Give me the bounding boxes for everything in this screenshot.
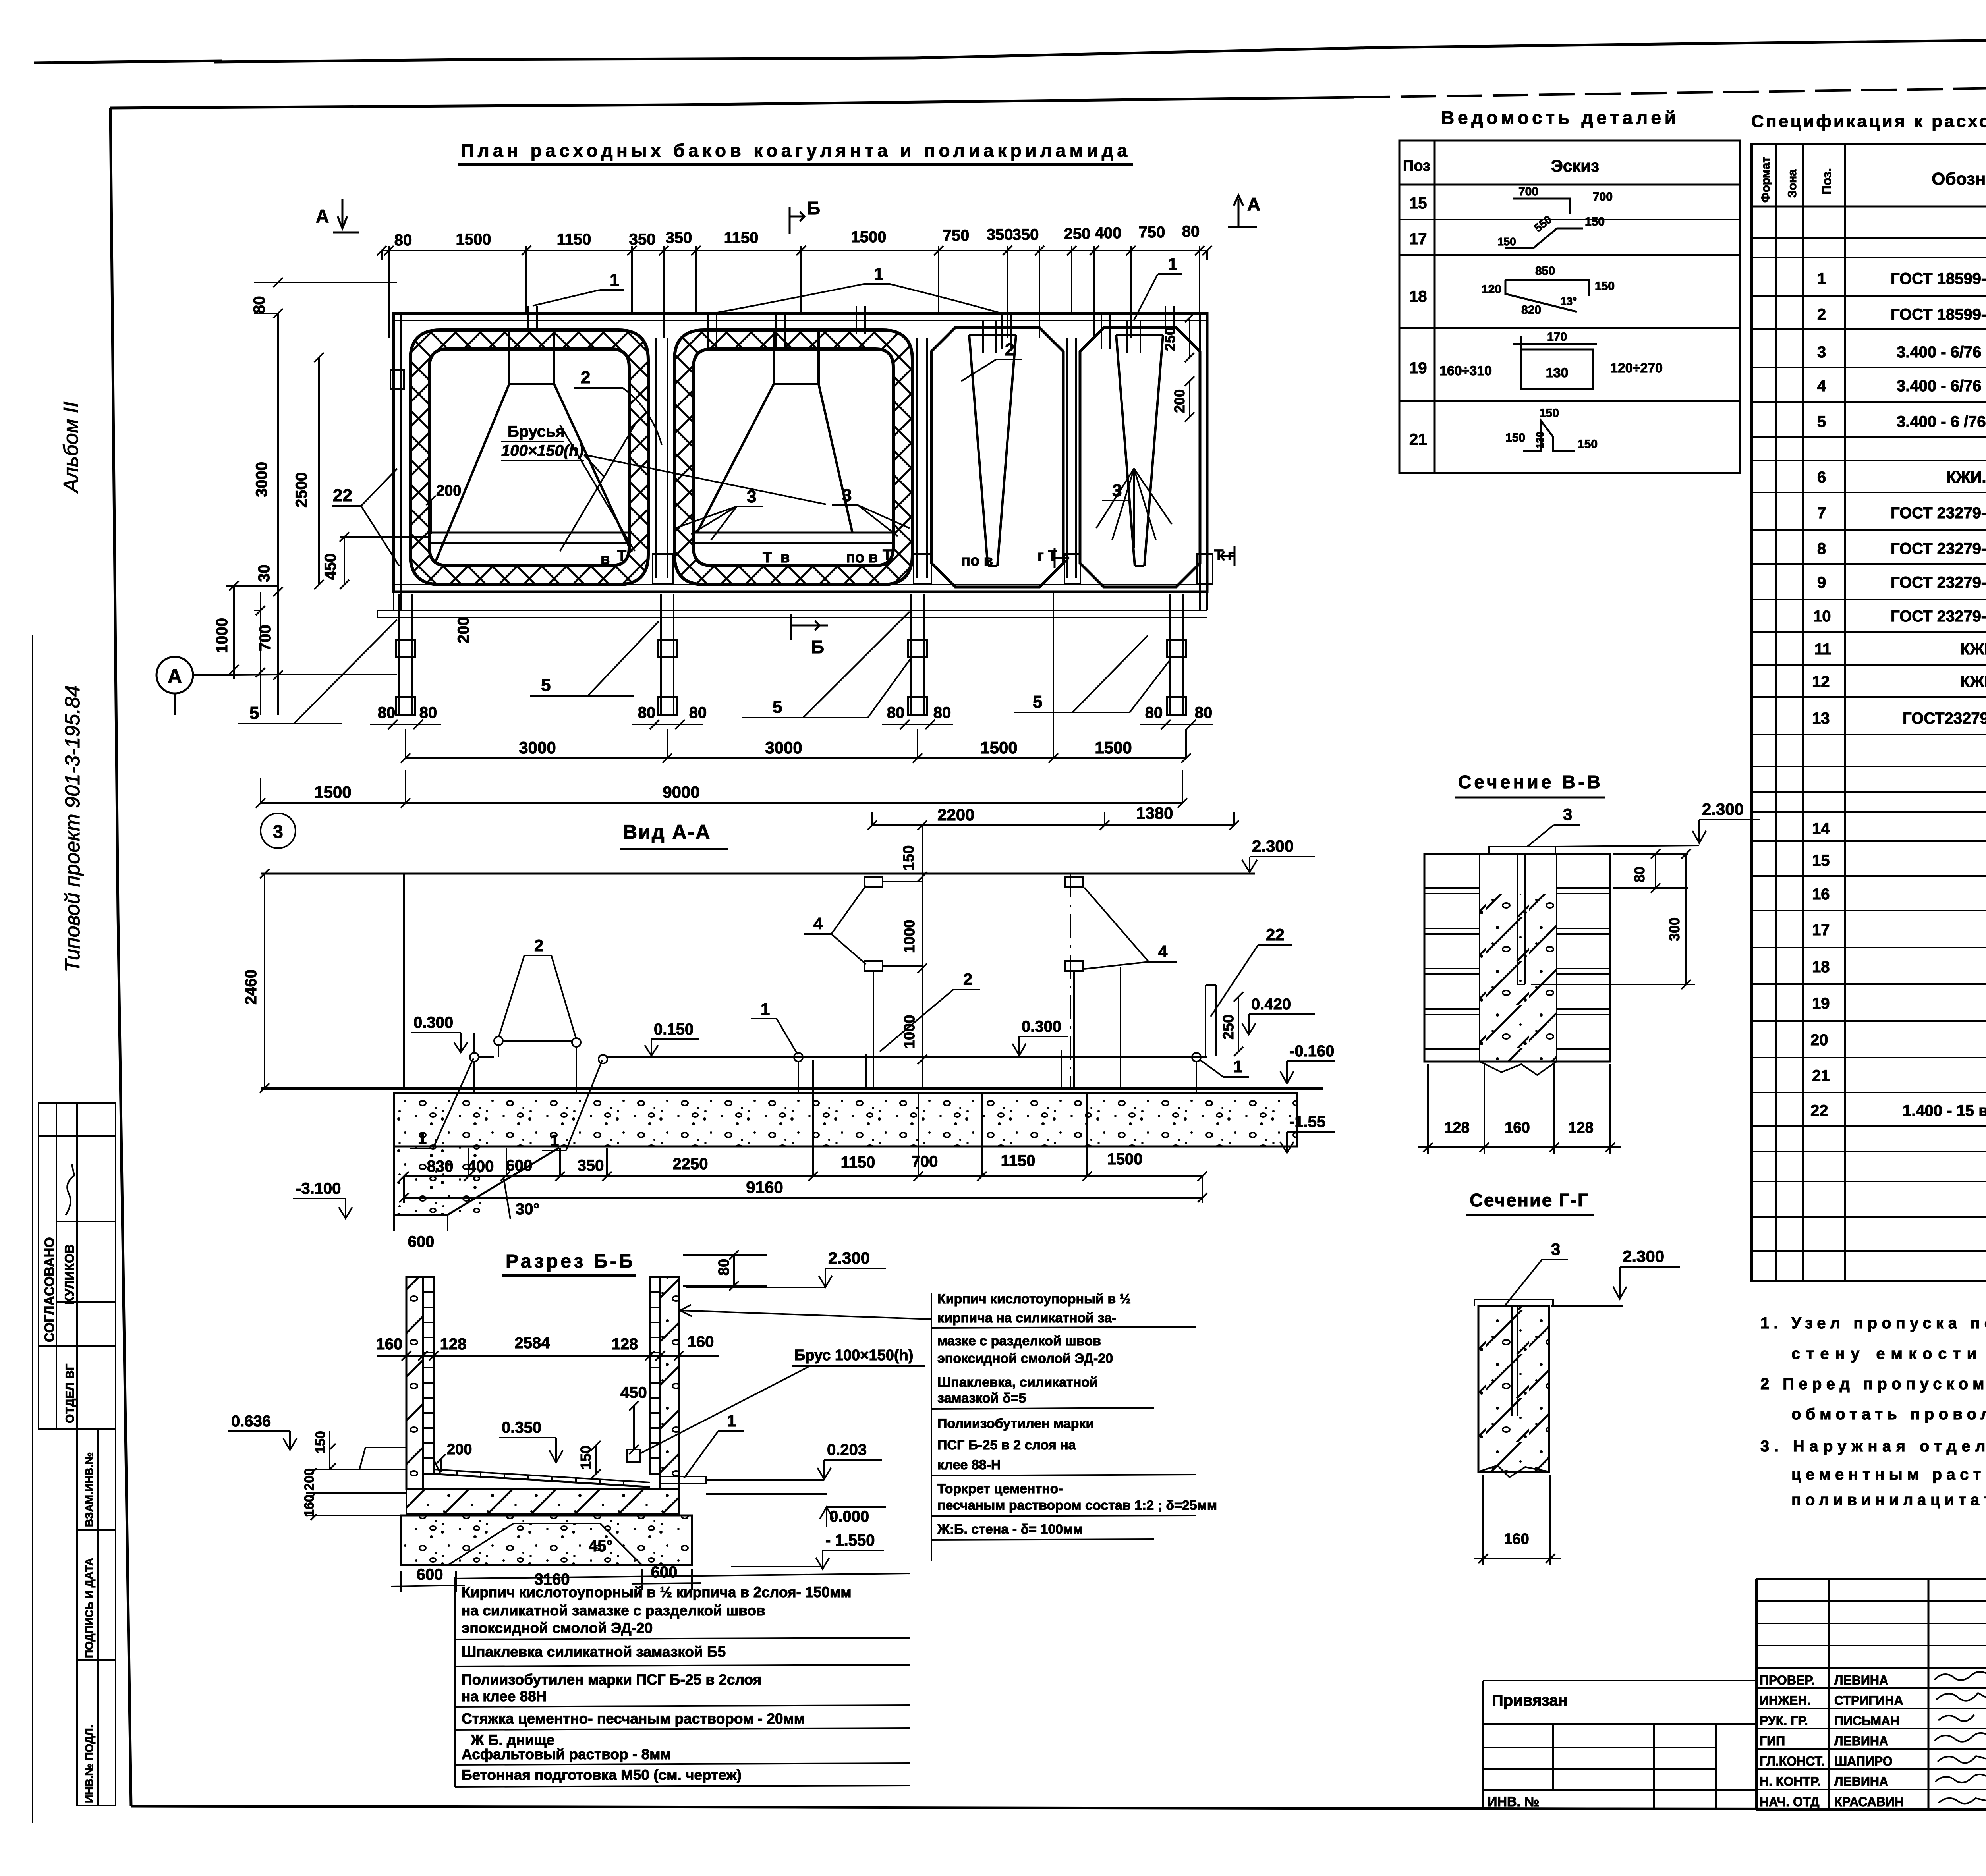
svg-text:750: 750 xyxy=(1139,224,1165,241)
svg-text:Стяжка цементно- песчаным рас: Стяжка цементно- песчаным раствором - 20… xyxy=(462,1710,805,1727)
brusya label xyxy=(501,423,826,504)
plate 22 on right wall xyxy=(1206,985,1216,1056)
svg-text:в: в xyxy=(780,549,790,566)
svg-text:16: 16 xyxy=(1812,886,1830,903)
svg-text:ИНВ.№ ПОДЛ.: ИНВ.№ ПОДЛ. xyxy=(83,1725,95,1803)
svg-text:18: 18 xyxy=(1409,288,1427,305)
svg-text:80: 80 xyxy=(887,704,905,722)
circled A row marker xyxy=(156,657,278,693)
tank 1 bottom ledge lines xyxy=(429,533,629,543)
left rotated dims xyxy=(213,296,472,654)
foundation slab speckled xyxy=(394,1093,1297,1215)
column body xyxy=(1478,1306,1549,1472)
svg-text:обмотать проволокой ф 3: обмотать проволокой ф 3 мм. xyxy=(1791,1405,1986,1423)
svg-text:по в: по в xyxy=(961,552,993,569)
tank 3 funnel xyxy=(969,335,1016,566)
svg-text:600: 600 xyxy=(408,1233,435,1251)
svg-text:22: 22 xyxy=(1266,925,1285,944)
svg-text:3000: 3000 xyxy=(765,738,802,757)
svg-text:18: 18 xyxy=(1812,958,1830,976)
label 5 leaders xyxy=(238,612,1171,724)
svg-text:9: 9 xyxy=(1817,574,1826,591)
svg-text:Т: Т xyxy=(763,549,772,566)
column cap xyxy=(1474,1299,1553,1306)
label 1 right xyxy=(1134,255,1182,320)
svg-text:ШАПИРО: ШАПИРО xyxy=(1834,1754,1893,1768)
svg-text:ПОДПИСЬ И ДАТА: ПОДПИСЬ И ДАТА xyxy=(83,1558,95,1658)
svg-text:8: 8 xyxy=(1817,540,1826,558)
dash-dot column axis xyxy=(1070,874,1071,1088)
svg-text:1: 1 xyxy=(610,270,619,290)
svg-text:11: 11 xyxy=(1814,641,1831,658)
svg-text:1380: 1380 xyxy=(1136,804,1173,822)
svg-text:Вид А-А: Вид А-А xyxy=(623,821,711,843)
svg-text:128: 128 xyxy=(1444,1119,1469,1136)
svg-text:160÷310: 160÷310 xyxy=(1439,363,1492,378)
svg-text:600: 600 xyxy=(651,1563,678,1581)
label 3 T2 right xyxy=(832,486,910,536)
svg-text:13°: 13° xyxy=(1560,295,1577,307)
svg-text:5: 5 xyxy=(1817,413,1826,430)
svg-text:2: 2 xyxy=(581,368,590,387)
approval box xyxy=(39,1103,116,1429)
svg-text:30: 30 xyxy=(255,565,273,583)
foundation dim numbers xyxy=(427,1150,1143,1175)
svg-text:Б: Б xyxy=(807,198,820,218)
concrete core xyxy=(1480,894,1557,1062)
svg-text:2: 2 xyxy=(534,936,543,955)
label 22 xyxy=(332,469,399,566)
signatures xyxy=(1934,1672,1986,1803)
svg-text:1: 1 xyxy=(761,1000,770,1018)
stamp small grid rows top-left xyxy=(1756,1601,1986,1668)
svg-text:на силикатной замазке с разде: на силикатной замазке с разделкой швов xyxy=(462,1602,765,1619)
svg-text:3: 3 xyxy=(842,486,852,505)
svg-text:750: 750 xyxy=(943,227,970,244)
svg-text:6: 6 xyxy=(1817,469,1826,486)
svg-text:стену емкости см. лист: стену емкости см. лист КЖ10. xyxy=(1791,1345,1986,1363)
svg-text:4: 4 xyxy=(813,914,823,933)
svg-text:1: 1 xyxy=(874,264,883,284)
svg-text:ГОСТ 18599- 73*: ГОСТ 18599- 73* xyxy=(1891,270,1986,288)
spec header row xyxy=(1752,206,1986,208)
top slab edge line xyxy=(607,1056,1207,1058)
tank 2 funnel xyxy=(697,332,852,533)
svg-text:1500: 1500 xyxy=(851,228,887,246)
svg-text:550: 550 xyxy=(1532,213,1554,234)
signature squiggle xyxy=(66,1164,74,1215)
wall body xyxy=(1424,854,1610,1062)
svg-text:Торкрет цементно-: Торкрет цементно- xyxy=(937,1481,1063,1496)
svg-text:0.350: 0.350 xyxy=(502,1419,541,1436)
svg-text:3000: 3000 xyxy=(519,738,556,757)
svg-text:850: 850 xyxy=(1535,264,1555,278)
svg-text:Зона: Зона xyxy=(1786,169,1799,198)
svg-text:мазке с разделкой швов: мазке с разделкой швов xyxy=(937,1334,1101,1349)
dim line 2200/1380 xyxy=(872,824,1234,826)
svg-text:1150: 1150 xyxy=(841,1154,875,1171)
svg-text:1500: 1500 xyxy=(456,231,491,248)
svg-text:4: 4 xyxy=(1158,942,1168,961)
svg-text:5: 5 xyxy=(773,697,782,717)
svg-text:160: 160 xyxy=(376,1336,403,1353)
foundation dim line xyxy=(404,1175,1202,1177)
svg-text:СОГЛАСОВАНО: СОГЛАСОВАНО xyxy=(42,1237,57,1342)
svg-text:450: 450 xyxy=(620,1384,647,1401)
bottom dim line 1 xyxy=(406,757,1186,759)
SECTION: notes xyxy=(1760,1314,1986,1509)
600 bottom box xyxy=(394,1215,448,1231)
svg-text:120÷270: 120÷270 xyxy=(1610,361,1663,376)
posts below deck xyxy=(396,594,1186,715)
spec rows 14-22 xyxy=(1810,818,1986,1119)
right wall brick liner xyxy=(650,1277,660,1474)
top dim labels xyxy=(394,223,1200,249)
svg-text:Альбом II: Альбом II xyxy=(60,401,83,494)
svg-text:Шпаклевка силикатной замазко: Шпаклевка силикатной замазкой Б5 xyxy=(462,1644,726,1660)
section B bottom mark xyxy=(791,614,828,657)
SECTION: SPECIFICATION TABLE xyxy=(1751,112,1986,1281)
svg-text:1: 1 xyxy=(550,1132,559,1149)
svg-text:0.300: 0.300 xyxy=(413,1014,453,1031)
svg-text:Ж:Б. стена - δ= 100мм: Ж:Б. стена - δ= 100мм xyxy=(937,1522,1083,1537)
svg-text:350: 350 xyxy=(629,231,656,248)
section mark A left xyxy=(316,199,359,232)
svg-text:ВЗАМ.ИНВ.№: ВЗАМ.ИНВ.№ xyxy=(83,1452,95,1527)
svg-text:2584: 2584 xyxy=(515,1334,551,1352)
svg-text:150: 150 xyxy=(1505,431,1525,444)
svg-text:2460: 2460 xyxy=(242,969,260,1005)
svg-text:150: 150 xyxy=(313,1431,328,1453)
tank 4 outline xyxy=(1080,328,1200,587)
left dim horizontal extensions xyxy=(222,282,429,674)
svg-text:3.400 - 6/76: 3.400 - 6/76 xyxy=(1897,377,1982,395)
svg-text:0.203: 0.203 xyxy=(827,1441,867,1459)
svg-text:7: 7 xyxy=(1817,504,1826,522)
svg-text:150: 150 xyxy=(1578,438,1598,451)
svg-text:120: 120 xyxy=(1482,283,1501,296)
svg-text:ПСГ Б-25 в 2 слоя на: ПСГ Б-25 в 2 слоя на xyxy=(937,1438,1076,1453)
svg-text:30°: 30° xyxy=(516,1200,540,1218)
svg-text:80: 80 xyxy=(251,296,268,314)
svg-text:3: 3 xyxy=(1817,344,1826,361)
svg-text:1: 1 xyxy=(1233,1057,1242,1076)
svg-text:КУЛИКОВ: КУЛИКОВ xyxy=(62,1244,77,1305)
svg-text:2: 2 xyxy=(1817,306,1826,323)
svg-text:ОТДЕЛ ВГ: ОТДЕЛ ВГ xyxy=(64,1364,77,1423)
foundation block speckled xyxy=(401,1515,692,1565)
stamp outer border xyxy=(1756,1579,1986,1810)
svg-text:Т: Т xyxy=(617,548,626,564)
svg-text:Формат: Формат xyxy=(1759,157,1772,203)
svg-text:19: 19 xyxy=(1812,995,1830,1012)
svg-text:Полиизобутилен марки ПСГ: Полиизобутилен марки ПСГ Б-25 в 2слоя xyxy=(462,1671,761,1688)
svg-text:Разрез Б-Б: Разрез Б-Б xyxy=(506,1251,633,1272)
svg-text:200: 200 xyxy=(436,483,461,499)
svg-text:1500: 1500 xyxy=(980,738,1017,757)
svg-text:ГОСТ 18599- 73*: ГОСТ 18599- 73* xyxy=(1891,306,1986,323)
svg-text:песчаным раствором состав 1: песчаным раствором состав 1:2 ; δ=25мм xyxy=(937,1498,1217,1513)
stamp vertical lines xyxy=(1829,1579,1986,1810)
pipe through wall xyxy=(660,1476,706,1484)
svg-text:2.300: 2.300 xyxy=(1702,800,1744,818)
svg-text:1: 1 xyxy=(418,1130,427,1147)
svg-text:21: 21 xyxy=(1409,431,1427,448)
tank 1 dim 200 xyxy=(426,483,461,534)
80 dim tick lines xyxy=(370,720,1213,729)
foundation trapezoid cut xyxy=(448,1523,642,1565)
svg-text:4: 4 xyxy=(1817,377,1826,395)
tank 4 funnel xyxy=(1116,335,1163,566)
svg-text:ИНВ. №: ИНВ. № xyxy=(1488,1794,1539,1809)
svg-text:КЖИ. С6: КЖИ. С6 xyxy=(1960,673,1986,691)
tank 4 fan leaders xyxy=(1096,469,1172,548)
svg-text:ГОСТ 23279-78: ГОСТ 23279-78 xyxy=(1891,504,1986,522)
brick columns xyxy=(1480,854,1557,1062)
svg-text:80: 80 xyxy=(689,704,707,722)
cap plate xyxy=(1489,847,1555,854)
svg-text:450: 450 xyxy=(322,553,339,580)
SECTION: PLAN VIEW xyxy=(156,194,1260,808)
svg-text:400: 400 xyxy=(1095,224,1122,242)
spec table outer xyxy=(1752,144,1986,1281)
svg-text:1500: 1500 xyxy=(1107,1150,1143,1168)
label 1 T1 xyxy=(533,270,624,306)
svg-text:1. Узел пропуска полиэтиле: 1. Узел пропуска полиэтиленовых труб чер… xyxy=(1760,1314,1986,1332)
section mark A right xyxy=(1228,194,1260,227)
svg-text:0.000: 0.000 xyxy=(829,1508,869,1525)
svg-text:-3.100: -3.100 xyxy=(296,1180,341,1197)
svg-text:2: 2 xyxy=(963,970,972,988)
stamp left col labels xyxy=(1760,1673,1904,1809)
svg-text:1000: 1000 xyxy=(901,919,918,953)
svg-text:Сечение В-В: Сечение В-В xyxy=(1458,772,1601,792)
left dim ticks xyxy=(229,278,349,680)
svg-text:80: 80 xyxy=(394,232,412,249)
svg-text:3: 3 xyxy=(1551,1240,1560,1258)
svg-text:на клее 88Н: на клее 88Н xyxy=(462,1688,547,1704)
svg-text:в: в xyxy=(601,551,610,567)
svg-text:17: 17 xyxy=(1812,921,1830,939)
svg-text:2500: 2500 xyxy=(293,472,310,508)
svg-text:150: 150 xyxy=(900,845,917,870)
embedded plates xyxy=(865,877,883,887)
divider T2/T3 xyxy=(917,338,927,578)
svg-text:ГЛ.КОНСТ.: ГЛ.КОНСТ. xyxy=(1760,1754,1824,1768)
divider T1/T2 xyxy=(656,338,667,578)
svg-text:80: 80 xyxy=(1145,704,1163,722)
svg-text:1500: 1500 xyxy=(314,783,351,801)
stamp name rows xyxy=(1756,1688,1986,1789)
bottom dims xyxy=(1418,1064,1621,1154)
base slab hatched xyxy=(406,1489,679,1514)
label 3 T2 left xyxy=(675,487,763,540)
svg-text:Кирпич кислотоупорный в ½ кирп: Кирпич кислотоупорный в ½ кирпича в 2сло… xyxy=(462,1584,852,1600)
SECTION: section V-V detail xyxy=(1418,772,1760,1154)
tank 2 bottom ledge lines xyxy=(694,533,893,543)
svg-text:ГОСТ23279 -78: ГОСТ23279 -78 xyxy=(1903,710,1986,727)
svg-text:1000: 1000 xyxy=(213,618,231,653)
svg-text:10: 10 xyxy=(1813,608,1831,625)
SECTION: parts list (Vedomost detaley) xyxy=(1399,107,1740,473)
spec row lines xyxy=(1752,238,1986,1251)
svg-text:3.400 - 6 /76: 3.400 - 6 /76 xyxy=(1897,413,1986,430)
svg-text:1.400 - 15 вып.1: 1.400 - 15 вып.1 xyxy=(1903,1102,1986,1119)
svg-text:Б: Б xyxy=(811,637,824,657)
svg-text:600: 600 xyxy=(417,1566,443,1583)
label 3 T4 xyxy=(1102,481,1128,500)
svg-text:Полиизобутилен марки: Полиизобутилен марки xyxy=(937,1416,1094,1431)
svg-text:13: 13 xyxy=(1812,710,1830,727)
frame left edge xyxy=(110,108,131,1806)
svg-text:0.636: 0.636 xyxy=(231,1413,271,1430)
svg-text:Поз.: Поз. xyxy=(1820,168,1834,195)
svg-text:по в: по в xyxy=(846,549,878,566)
svg-text:128: 128 xyxy=(612,1336,638,1353)
svg-text:А: А xyxy=(168,665,182,687)
right wall closure xyxy=(1197,554,1213,584)
svg-text:0.300: 0.300 xyxy=(1022,1018,1061,1035)
svg-text:ПРОВЕР.: ПРОВЕР. xyxy=(1760,1673,1815,1687)
svg-text:200: 200 xyxy=(1171,389,1188,413)
svg-text:250: 250 xyxy=(1064,225,1091,243)
bottom mark labels под funnels xyxy=(601,547,1234,569)
svg-text:Брусья: Брусья xyxy=(508,423,565,440)
svg-text:Н. КОНТР.: Н. КОНТР. xyxy=(1760,1774,1820,1789)
deck outline inner lines xyxy=(394,313,1207,592)
left dim cluster verticals xyxy=(175,313,344,715)
svg-text:ПИСЬМАН: ПИСЬМАН xyxy=(1834,1714,1899,1728)
svg-text:Кирпич кислотоупорный в ½: Кирпич кислотоупорный в ½ xyxy=(937,1291,1131,1307)
deck outline outer xyxy=(394,313,1207,592)
svg-text:80: 80 xyxy=(716,1259,732,1276)
svg-text:КЖИ. С5: КЖИ. С5 xyxy=(1946,469,1986,486)
svg-text:замазкой δ=5: замазкой δ=5 xyxy=(937,1391,1026,1406)
sheet top edge xyxy=(34,35,1986,63)
svg-text:ГИП: ГИП xyxy=(1760,1734,1785,1748)
svg-text:3: 3 xyxy=(273,821,283,842)
svg-text:80: 80 xyxy=(1631,867,1648,882)
svg-text:150: 150 xyxy=(1585,215,1605,228)
svg-text:0.420: 0.420 xyxy=(1251,996,1291,1013)
svg-text:Т г: Т г xyxy=(1214,547,1234,564)
svg-text:-0.160: -0.160 xyxy=(1289,1042,1334,1060)
svg-text:19: 19 xyxy=(1409,359,1427,377)
svg-text:Ж Б. днище: Ж Б. днище xyxy=(470,1732,554,1748)
SECTION: right material text block xyxy=(931,1291,1217,1561)
post 4 xyxy=(1170,594,1183,715)
svg-text:г Т: г Т xyxy=(1037,548,1057,564)
svg-text:2 Перед пропуском полиэт: 2 Перед пропуском полиэтиленовые трубы xyxy=(1760,1375,1986,1393)
top dim extension verticals xyxy=(382,246,1207,338)
post 2 xyxy=(661,594,674,715)
spec column lines xyxy=(1776,144,1986,1281)
left ledge step xyxy=(359,1448,406,1469)
svg-text:200: 200 xyxy=(447,1441,472,1458)
left wall cut xyxy=(406,1277,423,1489)
frame top line xyxy=(110,97,1354,108)
svg-text:1: 1 xyxy=(1817,270,1826,288)
svg-text:80: 80 xyxy=(378,704,396,722)
tank 1 hatched wall xyxy=(410,330,648,585)
svg-text:350: 350 xyxy=(666,229,692,247)
svg-text:План расходных баков коаг: План расходных баков коагулянта и полиак… xyxy=(461,140,1128,161)
svg-text:цементным раствором с п: цементным раствором с последующей окраск… xyxy=(1791,1466,1986,1483)
svg-text:-1.55: -1.55 xyxy=(1289,1113,1325,1131)
svg-text:150: 150 xyxy=(1539,407,1559,420)
svg-text:1: 1 xyxy=(727,1411,736,1430)
svg-text:Брус 100×150(h): Брус 100×150(h) xyxy=(794,1347,913,1364)
svg-text:300: 300 xyxy=(1666,917,1683,941)
left wall brick liner xyxy=(423,1277,434,1474)
svg-text:3: 3 xyxy=(1112,481,1122,500)
sloped brick floor xyxy=(434,1460,650,1487)
svg-text:Ведомость деталей: Ведомость деталей xyxy=(1441,107,1677,128)
svg-text:20: 20 xyxy=(1810,1031,1828,1049)
deck lower ledge xyxy=(377,592,1207,618)
svg-text:80: 80 xyxy=(1195,704,1213,722)
svg-text:15: 15 xyxy=(1812,852,1830,869)
ground line xyxy=(261,1087,1323,1090)
svg-text:200: 200 xyxy=(455,617,472,643)
svg-text:ГОСТ 23279- 78: ГОСТ 23279- 78 xyxy=(1891,540,1986,558)
svg-text:1150: 1150 xyxy=(557,231,591,248)
svg-text:1150: 1150 xyxy=(724,229,759,247)
svg-text:14: 14 xyxy=(1812,820,1830,838)
svg-text:эпоксидной смолой ЭД-20: эпоксидной смолой ЭД-20 xyxy=(937,1351,1113,1366)
svg-text:80: 80 xyxy=(638,704,656,722)
divider T3/T4 xyxy=(1067,338,1076,578)
svg-text:эпоксидной смолой ЭД-20: эпоксидной смолой ЭД-20 xyxy=(462,1620,653,1636)
section G flags xyxy=(1055,548,1068,568)
svg-text:ЛЕВИНА: ЛЕВИНА xyxy=(1834,1673,1888,1687)
svg-text:ЛЕВИНА: ЛЕВИНА xyxy=(1834,1734,1888,1748)
svg-text:- 1.550: - 1.550 xyxy=(825,1532,875,1549)
80|80 pair labels under posts xyxy=(378,704,1213,722)
SECTION: left margin boxes xyxy=(39,1103,116,1805)
svg-text:клее 88-Н: клее 88-Н xyxy=(937,1457,1001,1473)
left wall xyxy=(403,874,405,1088)
vedomost table grid xyxy=(1399,141,1740,473)
svg-text:2.300: 2.300 xyxy=(1252,837,1294,855)
SECTION: section G-G detail xyxy=(1466,1190,1680,1565)
svg-text:1: 1 xyxy=(1168,255,1177,274)
svg-text:Типовой проект 901-3-195.84: Типовой проект 901-3-195.84 xyxy=(61,685,84,972)
spec rows 6-13 xyxy=(1812,467,1986,727)
svg-text:ГОСТ 23279- 78: ГОСТ 23279- 78 xyxy=(1891,574,1986,591)
svg-text:ГОСТ 23279- 78: ГОСТ 23279- 78 xyxy=(1891,608,1986,625)
svg-text:кирпича на силикатной за-: кирпича на силикатной за- xyxy=(937,1310,1116,1326)
svg-text:ИНЖЕН.: ИНЖЕН. xyxy=(1760,1693,1810,1708)
svg-text:100×150(h): 100×150(h) xyxy=(501,442,584,459)
svg-text:130: 130 xyxy=(1546,365,1569,380)
svg-text:2.300: 2.300 xyxy=(1623,1247,1664,1266)
leader to right text block xyxy=(680,1305,931,1319)
svg-text:9000: 9000 xyxy=(663,783,699,801)
svg-text:820: 820 xyxy=(1521,303,1541,317)
inventory boxes xyxy=(77,1429,116,1805)
svg-text:21: 21 xyxy=(1812,1067,1830,1085)
svg-text:700: 700 xyxy=(1593,190,1613,203)
svg-text:350: 350 xyxy=(1012,226,1039,243)
posts below ground (hidden) xyxy=(474,967,1196,1092)
svg-text:22: 22 xyxy=(1810,1102,1828,1119)
spec rows 1-5 xyxy=(1817,270,1986,430)
svg-text:130: 130 xyxy=(1534,432,1546,449)
svg-text:80: 80 xyxy=(1182,223,1200,240)
svg-text:Поз: Поз xyxy=(1403,158,1430,174)
svg-text:поливинилацитатной краской: поливинилацитатной краской светлых тонов xyxy=(1791,1491,1986,1509)
